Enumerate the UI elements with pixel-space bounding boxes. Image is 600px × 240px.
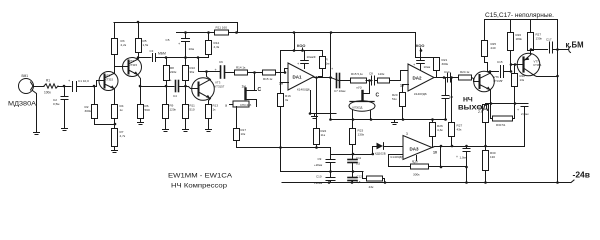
svg-text:ВЫХОД: ВЫХОД <box>458 105 488 112</box>
svg-text:R15 1к: R15 1к <box>263 77 273 81</box>
svg-text:300к: 300к <box>442 62 449 66</box>
svg-text:С3: С3 <box>150 49 154 53</box>
svg-text:DA3: DA3 <box>410 147 419 152</box>
svg-text:К140УД6: К140УД6 <box>297 88 310 92</box>
svg-text:КОО: КОО <box>416 43 424 48</box>
svg-text:180к: 180к <box>516 37 523 41</box>
svg-text:R11 160: R11 160 <box>216 26 228 30</box>
svg-text:к БМ: к БМ <box>566 41 584 50</box>
svg-text:+: + <box>456 155 458 159</box>
svg-text:130к: 130к <box>536 37 543 41</box>
svg-text:R30 51: R30 51 <box>496 123 506 127</box>
svg-text:3: 3 <box>406 132 408 136</box>
svg-text:С12: С12 <box>357 175 363 179</box>
svg-text:2,0мк: 2,0мк <box>521 112 529 116</box>
svg-text:220к: 220к <box>170 70 177 74</box>
svg-text:1м: 1м <box>242 85 247 89</box>
svg-text:1м: 1м <box>326 62 330 66</box>
svg-text:R19: R19 <box>412 160 418 164</box>
svg-text:240: 240 <box>491 46 496 50</box>
svg-text:+: + <box>517 108 519 112</box>
svg-text:1,0мк: 1,0мк <box>460 156 468 160</box>
svg-text:43к: 43к <box>369 185 374 189</box>
svg-text:С17: С17 <box>546 38 552 42</box>
svg-text:МД380А: МД380А <box>8 101 37 108</box>
svg-text:2,2к: 2,2к <box>121 43 127 47</box>
svg-text:С8: С8 <box>369 72 373 76</box>
svg-text:кУЗ: кУЗ <box>357 86 362 90</box>
svg-text:+20мк: +20мк <box>314 163 323 167</box>
svg-text:R1: R1 <box>46 79 50 83</box>
svg-text:ВМ1: ВМ1 <box>22 74 29 78</box>
svg-text:10мк: 10мк <box>424 65 431 69</box>
svg-text:R15 5,1к: R15 5,1к <box>351 72 364 76</box>
svg-text:C15,C17- неполярные.: C15,C17- неполярные. <box>485 12 554 19</box>
svg-text:-24в: -24в <box>573 170 591 180</box>
svg-text:11к: 11к <box>321 133 326 137</box>
svg-text:НЧ: НЧ <box>463 97 473 104</box>
svg-text:КТ315Г: КТ315Г <box>215 85 225 89</box>
svg-text:С11: С11 <box>356 156 361 160</box>
svg-text:13к: 13к <box>520 78 525 82</box>
svg-text:36к: 36к <box>190 70 195 74</box>
svg-text:К140УД6: К140УД6 <box>391 155 404 159</box>
svg-text:300к: 300к <box>85 109 92 113</box>
svg-text:МБМ: МБМ <box>158 52 166 56</box>
svg-text:560: 560 <box>145 108 150 112</box>
svg-text:4,7к: 4,7к <box>120 134 126 138</box>
svg-text:С6: С6 <box>219 60 223 64</box>
svg-text:КОО: КОО <box>297 43 305 48</box>
svg-text:КД102Б: КД102Б <box>375 152 386 156</box>
svg-text:R24 1к: R24 1к <box>460 70 470 74</box>
svg-text:10: 10 <box>433 151 437 155</box>
svg-text:1,5к: 1,5к <box>143 43 149 47</box>
svg-text:С10: С10 <box>316 175 322 179</box>
svg-text:130: 130 <box>490 155 495 159</box>
svg-text:EW1MM - EW1CA: EW1MM - EW1CA <box>168 173 233 180</box>
svg-text:С14: С14 <box>444 70 450 74</box>
svg-text:С7 10мк: С7 10мк <box>334 89 346 93</box>
svg-text:С1 10,0: С1 10,0 <box>78 79 89 83</box>
svg-text:120к: 120к <box>378 72 385 76</box>
svg-text:0,5: 0,5 <box>356 162 360 166</box>
svg-text:130к: 130к <box>358 133 365 137</box>
svg-text:а: а <box>225 104 227 108</box>
svg-text:С9: С9 <box>318 157 322 161</box>
svg-text:К140УД6: К140УД6 <box>414 92 427 96</box>
svg-text:КТ315Г: КТ315Г <box>494 79 504 83</box>
svg-text:С: С <box>376 93 380 99</box>
svg-text:51к: 51к <box>392 97 397 101</box>
svg-text:R14 1к: R14 1к <box>236 66 246 70</box>
svg-text:С: С <box>258 87 262 93</box>
svg-text:4,3к: 4,3к <box>437 128 443 132</box>
svg-text:С5: С5 <box>166 38 170 42</box>
svg-text:100к: 100к <box>44 91 51 95</box>
svg-text:DA2: DA2 <box>413 76 422 81</box>
svg-text:НЧ Компрессор: НЧ Компрессор <box>171 183 227 190</box>
svg-text:С4: С4 <box>173 94 177 98</box>
svg-text:С15: С15 <box>497 60 503 64</box>
svg-text:КТ361: КТ361 <box>534 63 542 67</box>
svg-text:0,5м: 0,5м <box>53 102 59 106</box>
svg-text:КП303Д: КП303Д <box>353 106 363 110</box>
svg-text:10мкФ: 10мкФ <box>307 55 317 59</box>
svg-text:КТ315: КТ315 <box>105 78 113 82</box>
svg-text:10к: 10к <box>241 132 246 136</box>
svg-text:300к: 300к <box>413 173 420 177</box>
svg-text:10м: 10м <box>189 47 195 51</box>
svg-text:КТ315: КТ315 <box>129 63 137 67</box>
svg-text:43к: 43к <box>457 128 462 132</box>
svg-text:DA1: DA1 <box>293 75 302 80</box>
svg-text:4,3к: 4,3к <box>214 45 220 49</box>
svg-text:СП3-38б: СП3-38б <box>240 103 252 107</box>
svg-text:120к: 120к <box>170 108 177 112</box>
svg-text:510: 510 <box>190 108 195 112</box>
